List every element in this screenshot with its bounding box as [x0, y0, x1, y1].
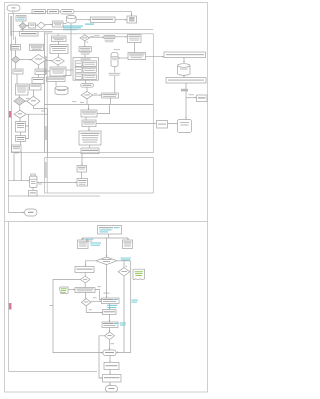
- stop box: [197, 95, 208, 102]
- wire into TR1: [90, 36, 104, 38]
- wire CY1 to H5: [76, 19, 91, 21]
- frame F_MAIN: [45, 34, 154, 153]
- process box Bm: [102, 93, 119, 98]
- start node: [7, 5, 20, 11]
- process box L3p: [50, 45, 68, 54]
- tiny label above CYL2: [114, 48, 120, 51]
- wire B8-B9: [109, 356, 111, 363]
- lane band top line: [20, 29, 153, 31]
- wire Da4 right to riser: [26, 113, 48, 115]
- wire DL3a-DL3b: [20, 59, 31, 61]
- process box TR1: [104, 36, 115, 39]
- wire Br3-CYL2: [118, 57, 128, 59]
- wire strip-L6 stub: [45, 70, 51, 72]
- end node B11: [106, 386, 118, 393]
- wire L2p feed: [57, 34, 59, 36]
- wire Da3-Da5: [25, 100, 27, 102]
- wire DL3b-DL4: [46, 60, 52, 62]
- teal text mid: [90, 243, 101, 244]
- teal label small: [85, 24, 94, 25]
- icon box H4: [127, 16, 137, 23]
- process box Bk4: [81, 148, 99, 154]
- wire B9-B10: [109, 370, 111, 375]
- rounded box R1: [81, 83, 94, 87]
- wire DM1-Bm: [93, 94, 102, 96]
- process box Bk1: [81, 110, 97, 117]
- process box L6: [50, 67, 66, 76]
- wire B10-B11: [109, 382, 111, 386]
- process box B3: [123, 240, 133, 249]
- wire DM1 down: [86, 99, 88, 105]
- wire to end node: [9, 212, 25, 214]
- wire return riser down: [116, 261, 131, 353]
- wire start down: [12, 11, 14, 14]
- wire B7-D5: [109, 328, 111, 333]
- process box B7: [102, 322, 118, 328]
- process box B10: [103, 375, 122, 383]
- wire Bk4 down: [81, 154, 83, 156]
- wire L2p-L3p: [58, 42, 60, 45]
- wire L6-container stub: [66, 69, 73, 71]
- wire Br2-Br3: [134, 43, 136, 53]
- wire folder to FL2: [37, 182, 77, 184]
- process box FL2: [77, 179, 88, 187]
- wire L7-CY2: [55, 82, 57, 87]
- teal label under split: [86, 238, 94, 241]
- wire D5 left branch to B10: [99, 336, 105, 378]
- end node oval: [25, 209, 38, 216]
- wire Ba7-Ba8: [20, 142, 22, 146]
- process box BX: [29, 191, 38, 197]
- label under CYL2: [109, 72, 121, 75]
- wire D4 right to B6: [91, 300, 102, 302]
- legend box H2: [48, 10, 59, 14]
- note N2 green: [133, 269, 145, 280]
- note shape NT: [178, 120, 192, 133]
- pool P1 top edge: [9, 13, 46, 15]
- wire Bk1-Bk2: [85, 117, 87, 120]
- wide box WB2: [166, 78, 206, 84]
- wire drop to Bk1: [88, 105, 90, 111]
- decision DL3b: [31, 54, 46, 65]
- small box M1: [29, 23, 36, 28]
- wire D1 left to B4: [86, 261, 97, 267]
- database CY3: [178, 64, 191, 76]
- loop arrows into Ba6 Ba7: [26, 114, 29, 138]
- wire D3-B5: [84, 283, 86, 288]
- wire L1-DL1: [22, 21, 24, 23]
- wire L_b to CY1: [63, 23, 67, 25]
- wire Da3 down: [19, 105, 21, 110]
- wire L4a down: [16, 74, 18, 84]
- wire M1-DL2: [36, 24, 38, 26]
- wire CY1 bottom drop long: [63, 24, 71, 76]
- tiny label on wire: [181, 89, 188, 92]
- wire Bk2-Bk3: [88, 127, 90, 132]
- wire L4b down: [38, 75, 40, 78]
- wire CT-R1: [85, 80, 87, 83]
- process box Ba8: [12, 145, 22, 152]
- decision DL1: [19, 23, 27, 30]
- small box RB on wire: [157, 121, 168, 129]
- process box H5: [91, 17, 116, 23]
- decision D3: [80, 276, 90, 283]
- wire DL2 to L_b: [45, 24, 52, 26]
- wire Ba7 side down: [20, 152, 22, 181]
- process box B6: [102, 298, 120, 304]
- wire CYL2 down: [114, 66, 116, 72]
- process box L5a: [16, 84, 29, 95]
- rounded box B8: [103, 350, 116, 356]
- decision D5: [105, 332, 115, 340]
- pool P1 left edge: [8, 14, 10, 213]
- process box L2b: [30, 44, 44, 50]
- decision DT1: [80, 35, 90, 41]
- caption under TB2: [80, 51, 90, 54]
- process box Ba6: [16, 122, 26, 133]
- process box L5p: [32, 78, 44, 84]
- wire Bk3-Bk4: [89, 145, 91, 148]
- wire DL4-L6: [57, 65, 59, 67]
- wire B4-D3: [84, 273, 86, 277]
- wire into folder: [9, 180, 30, 182]
- wire Bk2 to note row: [96, 123, 178, 125]
- container row 1: [75, 61, 82, 67]
- wire D1 right to return riser: [117, 260, 131, 262]
- wire L3p-DL4: [58, 54, 60, 58]
- process box L2a: [11, 45, 21, 51]
- wire B6-BOXX: [109, 304, 111, 310]
- decision Da3: [14, 97, 25, 105]
- container row 2: [75, 67, 82, 72]
- lane P2 title box: [20, 32, 39, 37]
- process box L7: [47, 77, 66, 82]
- process box L2p: [52, 36, 67, 42]
- wire Da5 down to riser: [34, 106, 48, 108]
- pool P1 bottom edge: [9, 195, 101, 197]
- pool P3 bottom edge: [9, 371, 98, 373]
- wire Br3 to WB1: [146, 56, 165, 58]
- wire Da5 up to L5c: [33, 90, 35, 96]
- wire branch to STOP: [186, 97, 197, 99]
- wire into FL1: [81, 155, 83, 166]
- teal text under B6: [107, 305, 118, 306]
- wire H1-H2: [46, 11, 48, 13]
- decision DM1: [81, 91, 93, 98]
- wire D2 feed drop: [123, 261, 125, 268]
- process box L4a: [13, 69, 23, 74]
- page divider line: [5, 221, 208, 223]
- wire Bm down: [110, 98, 112, 105]
- wire Ba8 down: [13, 154, 15, 181]
- teal label right of B7: [120, 323, 127, 324]
- pool P1 red label B: [9, 111, 12, 118]
- process box B2: [78, 240, 89, 249]
- process box Bk3: [79, 131, 101, 145]
- process box L5c: [30, 84, 42, 90]
- wire D5-B8: [109, 340, 111, 350]
- wire TR1-Br2: [115, 36, 128, 38]
- legend box H1: [32, 10, 46, 14]
- wire FL1-FL2: [81, 172, 83, 179]
- wire WB2 down long: [185, 83, 187, 119]
- wire D3 left return: [53, 280, 103, 353]
- process box Bk2: [82, 120, 96, 127]
- wire B1 split: [108, 234, 110, 238]
- frame F_MAIN title text: [45, 31, 53, 32]
- decision D1: [96, 257, 117, 265]
- wire WB1-CY3: [183, 58, 185, 64]
- decision Da4: [14, 110, 26, 118]
- wire DT1-TB2: [84, 41, 86, 47]
- wire H2-H3: [59, 11, 61, 13]
- process box Br2: [128, 35, 142, 43]
- process box B1: [98, 226, 122, 235]
- wire D4 bottom to BOXX: [86, 306, 102, 313]
- wire DL1-M1: [27, 25, 29, 27]
- process box Ba7: [16, 136, 26, 142]
- process box BOXX: [103, 310, 117, 315]
- arrowheads: [25, 14, 196, 385]
- wire L2a down: [15, 50, 17, 56]
- document CYL2: [111, 52, 118, 66]
- process box L4b: [35, 69, 46, 75]
- wire DL3b down: [38, 65, 40, 69]
- teal note text under CY1: [63, 26, 83, 27]
- decision Da5: [27, 96, 40, 106]
- wire BOXX-B7: [109, 315, 111, 323]
- outer page border: [5, 3, 208, 393]
- process box Br3: [128, 53, 146, 60]
- wire L5a-Da3: [19, 95, 21, 97]
- container CT: [73, 58, 99, 81]
- wire DL3a down: [15, 63, 17, 69]
- pool P3 red label: [9, 303, 12, 310]
- wire D1 bottom long drop to B6: [106, 265, 108, 298]
- wire T1 to L2a: [15, 37, 17, 45]
- wire N1-B5: [68, 288, 75, 290]
- caption under TR1: [105, 39, 115, 42]
- frame F_LOW: [45, 158, 154, 194]
- wire TB2-container: [84, 55, 86, 58]
- process box B5: [75, 288, 95, 293]
- process box L_b: [53, 21, 64, 27]
- wire riser down: [47, 109, 49, 158]
- database CY1: [67, 16, 77, 23]
- legend rounded box H3: [61, 10, 75, 15]
- wire folder-BX: [32, 188, 34, 191]
- decision D4: [81, 299, 91, 306]
- folder drum FD: [31, 174, 35, 176]
- frame F_MAIN label strip: [46, 34, 48, 153]
- decision DL3a: [12, 56, 20, 63]
- note N1 green: [59, 287, 68, 294]
- wire CY3-WB2: [183, 75, 185, 77]
- wire Bk1 right loop: [97, 105, 110, 114]
- decision D2: [118, 268, 130, 276]
- wire CYL2 label to Bm: [114, 76, 116, 93]
- long wire across y104: [45, 104, 154, 106]
- process box TB2: [79, 47, 91, 52]
- process box FL1: [77, 166, 87, 173]
- wire D2 bottom long drop: [123, 276, 125, 352]
- decision DL4: [52, 57, 65, 65]
- database CY2: [55, 86, 68, 95]
- process box L1: [16, 16, 26, 22]
- wire H3 to H4 drop: [74, 12, 132, 16]
- wire Da4 down: [19, 118, 21, 122]
- wire R1-DM1: [86, 87, 88, 91]
- container row 3: [75, 74, 82, 79]
- wire B5-D4: [85, 293, 87, 299]
- teal label right of D1: [121, 257, 132, 260]
- wire B5 right to B6: [95, 290, 102, 300]
- pool P1 rotated label strip: [13, 14, 15, 41]
- wide box WB1: [164, 52, 206, 58]
- teal label near riser: [132, 300, 139, 301]
- lane P2 frame: [12, 32, 45, 153]
- wire L6-L7: [55, 76, 57, 77]
- wire Ba6-Ba7: [20, 132, 22, 136]
- pool P3 left edge: [8, 222, 10, 372]
- process box B4: [75, 267, 94, 273]
- wire DL1 bottom drop: [22, 29, 24, 31]
- decision DL2: [37, 22, 45, 29]
- wire H5-H4: [115, 19, 127, 21]
- process box B9: [104, 363, 119, 370]
